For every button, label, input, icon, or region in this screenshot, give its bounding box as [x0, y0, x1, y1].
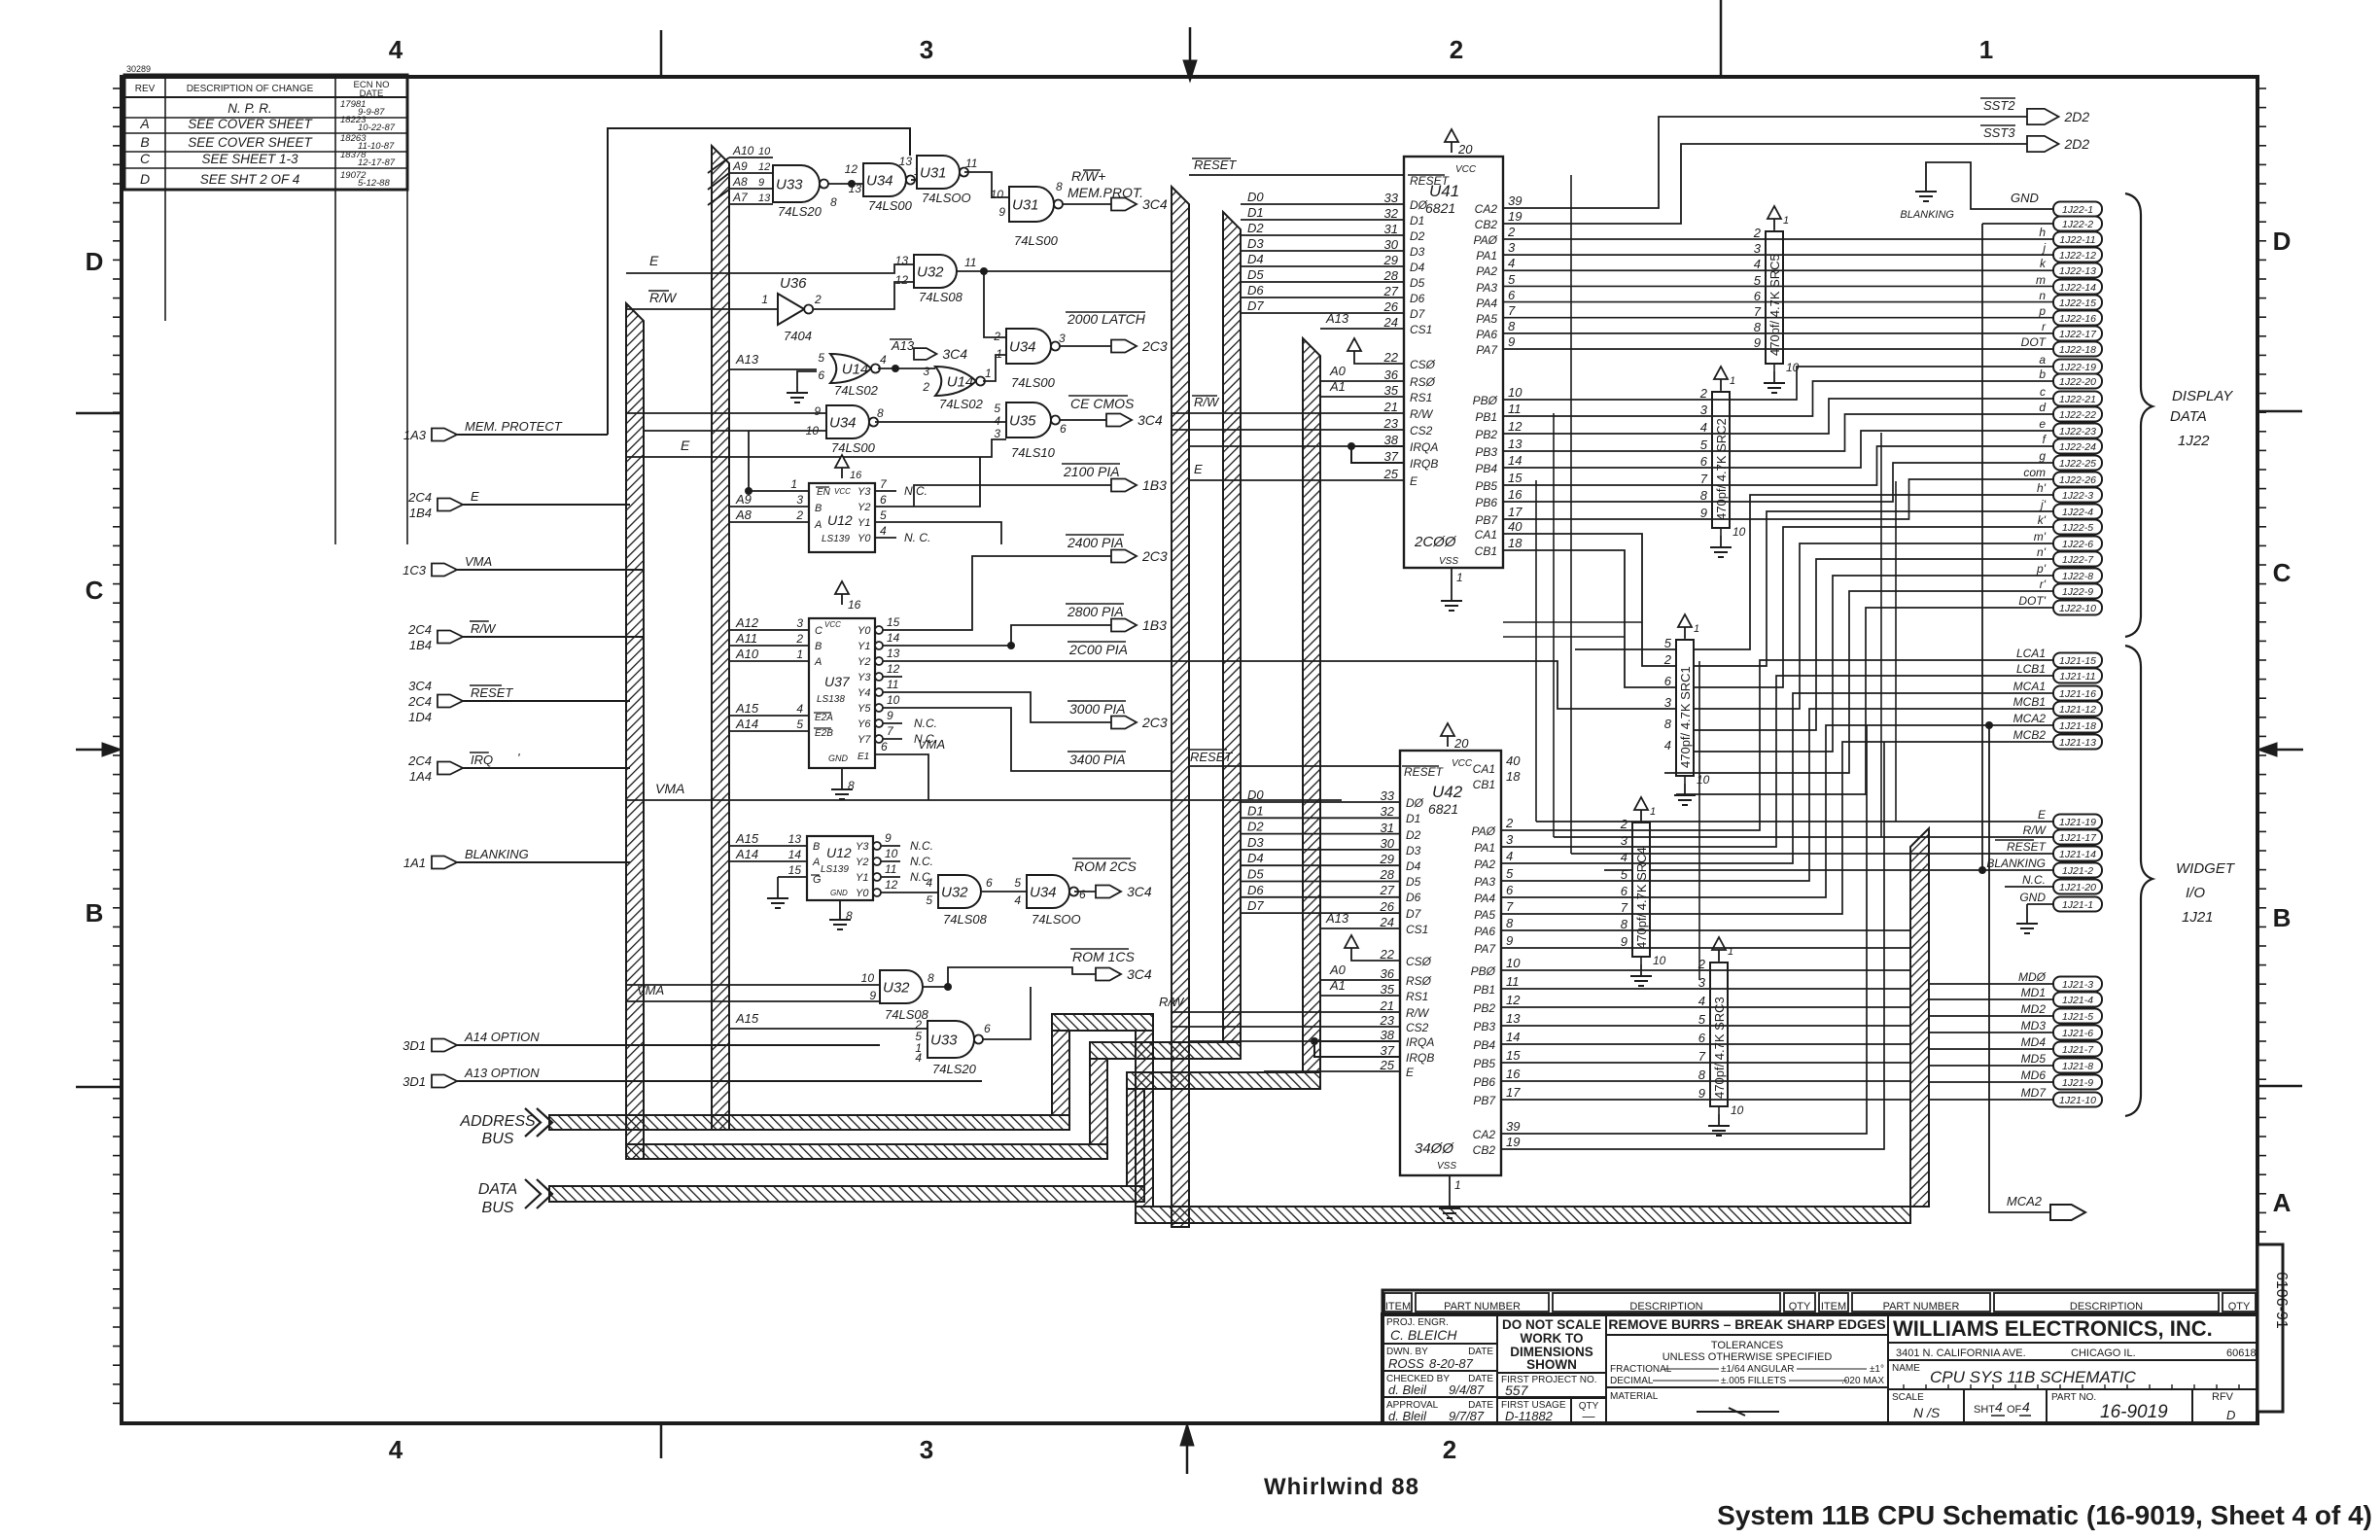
VCC at U12a	[835, 455, 849, 468]
svg-text:1: 1	[1456, 571, 1463, 584]
svg-text:3: 3	[920, 35, 933, 64]
svg-text:1J21-12: 1J21-12	[2059, 704, 2096, 716]
svg-text:D2: D2	[1247, 820, 1264, 834]
svg-text:E: E	[1194, 462, 1203, 476]
VCC at U41	[1445, 129, 1458, 142]
svg-text:PB2: PB2	[1475, 428, 1497, 441]
svg-text:16: 16	[850, 470, 862, 481]
U41 E stub	[1189, 479, 1404, 481]
U41 A0 A1 stubs	[1320, 380, 1404, 382]
svg-text:5: 5	[1698, 1012, 1706, 1027]
svg-text:5: 5	[880, 508, 887, 522]
svg-text:D1: D1	[1406, 812, 1420, 825]
svg-text:QTY: QTY	[1789, 1301, 1811, 1312]
svg-text:1: 1	[1979, 35, 1993, 64]
output flag 1B3 (2100 PIA)	[1111, 479, 1137, 492]
svg-text:SEE COVER SHEET: SEE COVER SHEET	[188, 117, 313, 131]
svg-text:74LS00: 74LS00	[831, 440, 876, 455]
svg-text:CSØ: CSØ	[1406, 955, 1432, 968]
connector pin 1J22-6 (m')	[2053, 537, 2102, 551]
brace DISPLAY DATA group	[2125, 193, 2152, 637]
svg-text:29: 29	[1380, 852, 1394, 866]
svg-text:WORK TO: WORK TO	[1521, 1331, 1584, 1346]
svg-text:D3: D3	[1410, 245, 1425, 259]
svg-text:A: A	[814, 656, 822, 668]
svg-text:32: 32	[1381, 804, 1395, 819]
svg-text:A0: A0	[1329, 962, 1347, 977]
svg-text:PA6: PA6	[1474, 925, 1495, 938]
svg-text:8: 8	[1621, 917, 1628, 931]
svg-text:1J21-1: 1J21-1	[2062, 899, 2093, 911]
svg-text:2: 2	[1699, 386, 1708, 401]
svg-text:TOLERANCES: TOLERANCES	[1711, 1340, 1783, 1351]
output flag 3C4 (R/W+MEM.PROT)	[1111, 198, 1137, 211]
svg-text:A9: A9	[732, 159, 748, 173]
wire U34 to U31	[911, 179, 917, 181]
svg-text:Y6: Y6	[857, 718, 871, 730]
bus step band B	[1090, 1042, 1241, 1059]
NAND gate U34 74LS00 (a)	[863, 163, 906, 196]
svg-text:30: 30	[1384, 237, 1399, 252]
svg-text:DESCRIPTION: DESCRIPTION	[2070, 1301, 2143, 1312]
U41 R/W CS2 stubs	[1172, 412, 1404, 414]
svg-text:PAØ: PAØ	[1474, 233, 1498, 247]
svg-text:27: 27	[1383, 284, 1399, 298]
svg-text:CB2: CB2	[1473, 1143, 1496, 1157]
svg-text:h': h'	[2037, 481, 2047, 495]
svg-text:E: E	[649, 253, 659, 268]
svg-text:VMA: VMA	[918, 737, 945, 752]
wires U42 PB0-PB7 into widget bus	[1501, 969, 1910, 971]
svg-text:1J22-14: 1J22-14	[2059, 282, 2096, 294]
svg-text:D3: D3	[1247, 835, 1264, 850]
svg-text:U32: U32	[917, 264, 944, 281]
connector pin 1J22-4 (j')	[2053, 505, 2102, 519]
svg-text:12: 12	[758, 161, 770, 173]
svg-text:3: 3	[994, 427, 1000, 440]
svg-text:1J22-6: 1J22-6	[2062, 539, 2093, 550]
svg-text:3400 PIA: 3400 PIA	[1069, 752, 1126, 767]
inverter U36 7404	[778, 294, 804, 325]
overline RESET widget	[1995, 839, 2034, 841]
input flag R/W from 2C4/1B4	[437, 631, 463, 644]
svg-text:11: 11	[887, 678, 898, 691]
svg-text:3C4: 3C4	[1142, 196, 1168, 212]
svg-text:BLANKING: BLANKING	[465, 847, 529, 861]
U42 R/W CS2 stubs	[1172, 1011, 1400, 1013]
wire U12a Y2 to select field	[896, 457, 980, 507]
resistor network SRC5 470pf/4.7K	[1766, 231, 1783, 364]
svg-text:4: 4	[796, 702, 803, 716]
connector pin 1J22-8 (p')	[2053, 569, 2102, 583]
resistor network SRC4 470pf/4.7K	[1632, 822, 1650, 957]
svg-text:D: D	[86, 247, 104, 276]
connector pin 1J22-24 (f)	[2053, 439, 2102, 454]
svg-text:PB7: PB7	[1473, 1094, 1496, 1107]
svg-text:24: 24	[1380, 915, 1394, 929]
bottom wide bus band to widget connector	[1136, 1207, 1910, 1223]
svg-text:p': p'	[2036, 562, 2047, 576]
output flag 3C4 (A13)	[914, 348, 936, 360]
svg-text:8: 8	[1664, 717, 1672, 731]
svg-text:D2: D2	[1410, 229, 1425, 243]
demux U12 LS139 (lower half)	[807, 836, 873, 900]
svg-text:1J22-21: 1J22-21	[2059, 394, 2096, 405]
svg-text:1J21: 1J21	[2182, 909, 2214, 926]
NOR gate U14 74LS02 (b)	[935, 367, 976, 396]
svg-text:C: C	[86, 576, 104, 605]
svg-text:VCC: VCC	[1452, 758, 1473, 769]
svg-text:6821: 6821	[1428, 801, 1458, 817]
svg-text:4: 4	[926, 876, 932, 890]
connector pin 1J22-10 (DOT')	[2053, 601, 2102, 615]
svg-text:Y5: Y5	[857, 703, 871, 715]
svg-text:1J21-10: 1J21-10	[2059, 1095, 2096, 1106]
svg-text:U34: U34	[1009, 339, 1036, 356]
svg-text:4: 4	[1621, 850, 1627, 864]
svg-text:k: k	[2040, 257, 2047, 270]
wire 2000 LATCH to flag	[1060, 345, 1111, 347]
svg-text:C: C	[140, 151, 151, 166]
svg-text:5: 5	[1621, 867, 1628, 882]
svg-text:DATA: DATA	[2170, 408, 2207, 425]
svg-text:3C4: 3C4	[408, 679, 432, 693]
svg-text:B: B	[815, 641, 822, 652]
address bus vertical run (second)	[712, 146, 729, 1130]
wire Y4 to 3000 PIA	[902, 692, 1111, 722]
U41 CS0 vcc stub	[1347, 338, 1361, 351]
svg-text:1J22-8: 1J22-8	[2062, 571, 2093, 582]
svg-text:MD2: MD2	[2021, 1002, 2047, 1016]
resistor network SRC3 470pf/4.7K	[1710, 962, 1728, 1106]
svg-text:D7: D7	[1410, 307, 1426, 321]
connector pin 1J22-23 (e)	[2053, 424, 2102, 438]
svg-text:B: B	[86, 898, 104, 927]
svg-text:470pf/ 4.7K SRC5: 470pf/ 4.7K SRC5	[1767, 254, 1782, 356]
input flag BLANKING from 1A1	[432, 857, 457, 869]
svg-text:7: 7	[1700, 472, 1708, 486]
svg-text:RS1: RS1	[1410, 391, 1432, 404]
svg-text:5: 5	[818, 351, 824, 365]
wire R/W feed to widget	[1553, 413, 1555, 837]
svg-text:Y1: Y1	[857, 517, 870, 529]
svg-text:1B3: 1B3	[1142, 617, 1167, 633]
svg-text:4: 4	[880, 524, 887, 538]
wire IRQB jog U42	[1314, 1041, 1400, 1057]
svg-text:11: 11	[964, 256, 976, 269]
svg-text:D1: D1	[1247, 205, 1264, 220]
svg-text:SHT: SHT	[1974, 1404, 1995, 1416]
svg-text:2: 2	[1620, 817, 1628, 831]
svg-text:e: e	[2039, 417, 2046, 431]
svg-text:6106-91: 6106-91	[2273, 1272, 2290, 1329]
svg-text:1J22-26: 1J22-26	[2059, 474, 2096, 486]
svg-text:40: 40	[1508, 519, 1522, 534]
PIA U42 6821	[1400, 751, 1501, 1175]
svg-text:A10: A10	[735, 647, 759, 661]
connector pin 1J21-2 (BLANKING)	[2053, 863, 2102, 878]
svg-text:9: 9	[814, 404, 821, 418]
NAND gate U34 74LS00 (b) 2000 LATCH	[1006, 329, 1051, 364]
svg-text:VCC: VCC	[1455, 164, 1477, 175]
svg-text:Y2: Y2	[856, 857, 868, 868]
svg-text:ITEM: ITEM	[1385, 1301, 1411, 1312]
svg-text:c: c	[2040, 385, 2046, 399]
wire SRC1 pin5 feed	[1575, 648, 1677, 650]
svg-text:D: D	[2226, 1408, 2235, 1422]
svg-text:PB1: PB1	[1475, 410, 1497, 424]
svg-text:40: 40	[1506, 753, 1521, 768]
svg-text:GND: GND	[2019, 891, 2046, 904]
connector pin 1J21-19 (E)	[2053, 815, 2102, 829]
svg-text:12: 12	[887, 662, 900, 676]
svg-text:9: 9	[758, 177, 764, 189]
svg-text:U14: U14	[842, 362, 869, 378]
svg-text:CA1: CA1	[1473, 762, 1495, 776]
svg-text:C. BLEICH: C. BLEICH	[1390, 1327, 1457, 1343]
address bus vertical run (A13/A0/A1 feed)	[1303, 338, 1320, 1072]
bus step band C	[1127, 1072, 1320, 1089]
svg-text:8: 8	[1056, 180, 1063, 193]
svg-text:18: 18	[1506, 769, 1521, 784]
AND gate U32 74LS08 (d)	[938, 875, 981, 908]
svg-text:3D1: 3D1	[402, 1038, 426, 1053]
svg-text:15: 15	[1506, 1048, 1521, 1063]
svg-text:N. P. R.: N. P. R.	[227, 101, 272, 116]
svg-text:DESCRIPTION: DESCRIPTION	[1629, 1301, 1702, 1312]
svg-text:1J21-5: 1J21-5	[2062, 1011, 2093, 1023]
svg-text:D6: D6	[1410, 292, 1425, 305]
wire Y5 to 3400 PIA	[902, 708, 1172, 771]
wire U31a to U31b	[964, 172, 1009, 197]
svg-text:C: C	[815, 625, 822, 637]
svg-text:d. Bleil: d. Bleil	[1388, 1382, 1427, 1397]
connector pin 1J22-5 (k')	[2053, 520, 2102, 535]
svg-text:4: 4	[915, 1051, 922, 1065]
svg-text:D4: D4	[1406, 859, 1421, 873]
svg-text:33: 33	[1384, 191, 1399, 205]
wire ROM2CS to flag	[1074, 891, 1096, 892]
wire channel horizontal g	[1503, 621, 1642, 623]
svg-text:470pf/ 4.7K SRC1: 470pf/ 4.7K SRC1	[1678, 666, 1693, 768]
wire U42 CA2 riser to MCA2	[1501, 725, 1867, 1134]
connector pin 1J22-21 (c)	[2053, 392, 2102, 406]
svg-text:6: 6	[1079, 888, 1086, 901]
svg-text:B: B	[140, 134, 149, 150]
connector pin 1J22-15 (n)	[2053, 296, 2102, 310]
svg-text:PART NO.: PART NO.	[2051, 1392, 2096, 1403]
svg-text:DECIMAL: DECIMAL	[1610, 1376, 1654, 1386]
connector pin 1J21-11 (LCB1)	[2053, 669, 2102, 683]
svg-text:RESET: RESET	[1404, 765, 1445, 779]
svg-text:RS1: RS1	[1406, 990, 1428, 1003]
svg-text:8: 8	[1700, 488, 1708, 503]
U42 A0 A1 stubs	[1320, 979, 1400, 981]
svg-text:9: 9	[869, 989, 876, 1002]
svg-text:A15: A15	[735, 701, 759, 716]
wire BLANKING vertical 1J22-2 to 1J21-2	[1982, 223, 2053, 225]
svg-text:m': m'	[2034, 530, 2047, 543]
svg-text:8: 8	[877, 406, 884, 420]
output flag 2D2 (SST3)	[2027, 136, 2059, 152]
svg-text:6: 6	[1508, 288, 1516, 302]
svg-text:21: 21	[1380, 998, 1394, 1013]
svg-text:E1: E1	[857, 752, 869, 762]
svg-text:16: 16	[848, 598, 861, 612]
svg-text:2C4: 2C4	[407, 694, 432, 709]
svg-text:U33: U33	[776, 177, 803, 193]
svg-text:2: 2	[1507, 225, 1516, 239]
svg-text:11: 11	[965, 157, 977, 170]
svg-text:36: 36	[1381, 966, 1395, 981]
svg-text:74LS08: 74LS08	[919, 290, 963, 304]
svg-text:4: 4	[1995, 1399, 2003, 1415]
svg-text:LS139: LS139	[822, 534, 850, 544]
bus riser from lower band	[1090, 1059, 1107, 1144]
svg-text:13: 13	[1508, 437, 1522, 451]
svg-text:D2: D2	[1406, 828, 1421, 842]
svg-text:j': j'	[2039, 498, 2047, 511]
svg-text:RESET: RESET	[471, 685, 513, 700]
svg-text:PB3: PB3	[1475, 445, 1497, 459]
svg-text:6: 6	[1506, 883, 1514, 897]
wires widget E R/W RESET BLANKING	[1536, 821, 2053, 822]
svg-text:IRQA: IRQA	[1406, 1035, 1434, 1049]
svg-text:D: D	[140, 171, 150, 187]
svg-text:CB1: CB1	[1473, 778, 1495, 791]
svg-text:FRACTIONAL: FRACTIONAL	[1610, 1364, 1672, 1375]
wire U33 out to U34	[828, 183, 863, 185]
svg-text:A: A	[2273, 1188, 2292, 1217]
U12b input stubs	[729, 845, 807, 847]
svg-text:±1°: ±1°	[1870, 1364, 1884, 1375]
svg-text:DØ: DØ	[1410, 198, 1428, 212]
svg-text:A14 OPTION: A14 OPTION	[464, 1030, 540, 1044]
svg-text:C: C	[2273, 558, 2292, 587]
svg-text:IRQ: IRQ	[471, 752, 493, 767]
svg-text:g: g	[2039, 449, 2046, 463]
svg-text:Y1: Y1	[857, 641, 870, 652]
svg-text:4: 4	[1664, 738, 1671, 752]
bus riser from data band	[1127, 1089, 1144, 1186]
svg-text:12: 12	[1508, 419, 1522, 434]
svg-text:3C4: 3C4	[1137, 412, 1163, 428]
svg-text:16: 16	[1506, 1067, 1521, 1081]
svg-text:PA4: PA4	[1474, 892, 1495, 905]
svg-text:27: 27	[1380, 883, 1395, 897]
svg-text:DATA: DATA	[478, 1181, 517, 1198]
AND gate U32 74LS08 (a)	[914, 255, 957, 288]
svg-text:CS2: CS2	[1406, 1021, 1429, 1034]
svg-text:3D1: 3D1	[402, 1074, 426, 1089]
svg-text:15: 15	[788, 863, 802, 877]
svg-text:1J21-4: 1J21-4	[2062, 995, 2093, 1006]
svg-text:B: B	[2273, 903, 2292, 932]
svg-text:D7: D7	[1406, 907, 1422, 921]
svg-text:U12: U12	[827, 512, 853, 528]
svg-text:A: A	[814, 519, 822, 531]
svg-text:1: 1	[1694, 623, 1699, 635]
connector pin 1J21-13 (MCB2)	[2053, 735, 2102, 750]
svg-text:2: 2	[922, 380, 929, 394]
svg-text:PA5: PA5	[1476, 312, 1497, 326]
svg-text:2C4: 2C4	[407, 753, 432, 768]
svg-text:BLANKING: BLANKING	[1900, 209, 1954, 221]
svg-text:B: B	[815, 503, 822, 514]
svg-text:com: com	[2023, 466, 2046, 479]
svg-text:BLANKING: BLANKING	[1986, 857, 2046, 870]
svg-text:11: 11	[885, 862, 896, 876]
svg-text:PB2: PB2	[1473, 1001, 1495, 1015]
svg-text:1J21-14: 1J21-14	[2059, 849, 2096, 860]
svg-text:6: 6	[1700, 454, 1708, 469]
svg-text:1J22-5: 1J22-5	[2062, 522, 2093, 534]
wire MCA2 drop to flag	[1989, 725, 2050, 1212]
svg-text:CE CMOS: CE CMOS	[1070, 396, 1135, 411]
svg-text:74LS08: 74LS08	[943, 912, 988, 927]
svg-text:5: 5	[1014, 876, 1021, 890]
wire U14a out with node	[878, 367, 935, 369]
connector pin 1J22-11 (h)	[2053, 232, 2102, 247]
input flag E from 2C4/1B4	[437, 499, 463, 511]
svg-text:16-9019: 16-9019	[2100, 1402, 2168, 1422]
connector pin 1J22-22 (d)	[2053, 407, 2102, 422]
svg-text:R/W: R/W	[1194, 395, 1220, 409]
svg-text:1J22-9: 1J22-9	[2062, 586, 2093, 598]
svg-text:MD3: MD3	[2021, 1019, 2047, 1032]
svg-text:74LS08: 74LS08	[885, 1007, 929, 1022]
svg-text:PB6: PB6	[1475, 496, 1497, 509]
svg-text:30289: 30289	[126, 64, 151, 74]
svg-text:IRQA: IRQA	[1410, 440, 1438, 454]
svg-text:3C4: 3C4	[1127, 884, 1152, 899]
svg-text:A: A	[812, 857, 820, 868]
svg-text:Y2: Y2	[857, 502, 870, 513]
svg-text:d: d	[2039, 401, 2046, 414]
svg-text:2: 2	[1505, 816, 1514, 830]
svg-text:D5: D5	[1406, 875, 1421, 889]
wire Y2 to 2C00 PIA run	[902, 660, 1073, 662]
connector pin 1J22-12 (j)	[2053, 248, 2102, 262]
svg-text:3C4: 3C4	[942, 346, 967, 362]
svg-text:OF: OF	[2007, 1404, 2022, 1416]
wire U33b out	[982, 987, 1031, 1039]
svg-text:LCB1: LCB1	[2016, 662, 2046, 676]
svg-text:10: 10	[1653, 954, 1666, 967]
AND gate U32 74LS08 (e)	[880, 970, 923, 1003]
decoder U37 LS138	[809, 618, 875, 768]
svg-text:U36: U36	[780, 275, 807, 292]
svg-text:REMOVE BURRS – BREAK SHARP EDG: REMOVE BURRS – BREAK SHARP EDGES	[1608, 1316, 1885, 1332]
svg-text:A0: A0	[1329, 364, 1347, 378]
svg-text:1J22-4: 1J22-4	[2062, 507, 2093, 518]
NAND gate U31 74LS00 (b)	[1009, 187, 1054, 222]
svg-text:DØ: DØ	[1406, 796, 1424, 810]
svg-text:1: 1	[790, 477, 797, 491]
svg-text:Y0: Y0	[857, 533, 871, 544]
svg-text:D6: D6	[1247, 883, 1264, 897]
svg-text:10-22-87: 10-22-87	[358, 122, 396, 133]
svg-text:1J22-11: 1J22-11	[2059, 234, 2095, 246]
svg-text:EN: EN	[817, 487, 831, 498]
connector pin 1J22-3 (h')	[2053, 488, 2102, 503]
svg-text:5: 5	[1664, 636, 1672, 650]
wire U41 CA1 to SRC1	[1503, 534, 1677, 666]
connector pin 1J22-17 (r)	[2053, 327, 2102, 341]
connector pin 1J21-7 (MD4)	[2053, 1042, 2102, 1057]
wire U14b out to U34b	[983, 355, 1006, 381]
U12a input stubs	[729, 506, 809, 507]
